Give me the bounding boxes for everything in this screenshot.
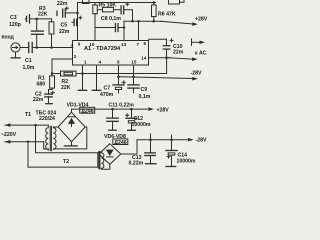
capacitor C10 22m: [163, 39, 183, 58]
ground under C2: [46, 103, 53, 105]
node: R6 top on rail: [153, 1, 156, 4]
svg-text:3: 3: [70, 44, 73, 49]
node: C14 on -rail: [170, 138, 173, 141]
capacitor C6: [121, 3, 132, 22]
svg-text:14: 14: [141, 56, 147, 61]
node: stub on -rail: [149, 138, 152, 141]
svg-text:22m: 22m: [33, 97, 44, 103]
stub on -28V rail: [150, 134, 152, 140]
node: pin7 on rail: [137, 20, 140, 23]
svg-text:680: 680: [37, 82, 46, 88]
ground under C11: [109, 129, 116, 131]
svg-text:22K: 22K: [38, 12, 48, 18]
node: line A to T2 branch: [34, 124, 37, 127]
transformer T2 core: [99, 152, 100, 169]
svg-text:к АС: к АС: [195, 51, 207, 57]
resistor R5 10K: [97, 3, 120, 12]
svg-text:4: 4: [99, 60, 102, 65]
diode bridge VD1-VD4 Д246: [58, 103, 95, 142]
ground under C12: [128, 129, 136, 131]
wire T1 secondary top to bridge: [53, 126, 58, 129]
svg-text:13: 13: [121, 42, 127, 47]
svg-text:C5: C5: [61, 22, 68, 28]
-28V arrow (PSU): [188, 138, 207, 144]
svg-text:22m: 22m: [173, 49, 184, 55]
capacitor C9 0,1m: [128, 85, 151, 100]
svg-text:C12: C12: [134, 116, 144, 122]
ground under C13: [146, 163, 156, 165]
transformer T1 core: [50, 126, 51, 150]
node: output/C10: [165, 56, 168, 59]
svg-text:R5 10K: R5 10K: [99, 3, 117, 9]
resistor R3 22K: [38, 6, 54, 48]
svg-text:+28V: +28V: [195, 17, 208, 23]
transformer T1 primary winding: [46, 125, 49, 150]
wire pin 13 up to +V rail: [123, 21, 125, 40]
svg-text:T1: T1: [25, 112, 31, 118]
~220V input line B: [5, 140, 44, 144]
wire bridge1 + output up to +rail: [71, 109, 73, 112]
svg-text:0,1m: 0,1m: [139, 94, 151, 100]
svg-text:C8 0,1m: C8 0,1m: [101, 16, 121, 22]
capacitor C3 120p: [9, 15, 52, 28]
capacitor C11 0,22m: [107, 102, 134, 130]
ground pin 1: [78, 89, 86, 91]
svg-text:1,0m: 1,0m: [23, 65, 35, 71]
svg-text:2: 2: [74, 54, 77, 59]
wire pin 7 up to +V rail: [138, 21, 140, 40]
node: R3 to input line: [50, 46, 53, 49]
wire pin 9 up to top rail: [77, 3, 79, 41]
~220V input line A: [1, 123, 48, 138]
svg-text:22m: 22m: [57, 1, 68, 7]
wire T1 secondary bottom to bridge right vertex: [53, 127, 86, 149]
capacitor C5 22m: [59, 16, 82, 35]
op-amp A1 TDA7294: [70, 41, 148, 66]
+28V arrow (amp): [161, 17, 208, 26]
-V bus of amp (pins 8,15): [119, 77, 193, 79]
svg-text:22m: 22m: [59, 29, 70, 35]
node: feedback/pin1 crossing: [81, 72, 84, 75]
svg-text:10000m: 10000m: [132, 122, 151, 128]
diode bridge VD6-VD8 Д246: [99, 134, 128, 164]
svg-text:220/24: 220/24: [39, 116, 55, 122]
svg-text:10: 10: [89, 42, 95, 47]
ground under C14: [166, 166, 176, 168]
wire feedback line R2 to output: [76, 73, 167, 75]
shunt capacitor at input (vertical): [32, 19, 44, 47]
svg-text:C7: C7: [104, 86, 111, 92]
wire input line to pin 3: [37, 47, 73, 49]
node: pin15 on -V bus: [132, 75, 135, 78]
ground under input connector: [11, 52, 20, 58]
wire pin 2 to feedback node: [52, 59, 73, 74]
resistor R1 680: [37, 74, 55, 95]
capacitor C12 10000m: [126, 109, 151, 130]
svg-text:T2: T2: [63, 159, 69, 165]
node: C8 to pin13 wire: [123, 26, 126, 29]
svg-text:C1: C1: [25, 58, 32, 64]
node: C12 on +rail: [130, 108, 133, 111]
node: C4 to pin9 wire: [76, 12, 79, 15]
wire line B corner to T1 primary bottom: [44, 142, 49, 149]
+V rail to +28V: [124, 20, 161, 22]
+28V arrow (PSU): [148, 107, 169, 113]
transformer T2 secondary winding: [101, 153, 104, 169]
svg-text:7: 7: [137, 42, 140, 47]
capacitor C8 0,1m: [95, 16, 124, 31]
svg-text:470m: 470m: [100, 92, 114, 98]
svg-text:10000m: 10000m: [177, 158, 196, 164]
+28V rail (PSU): [72, 108, 148, 110]
node: pin8 on -V bus: [117, 75, 120, 78]
node: shunt cap to input line: [35, 46, 38, 49]
wire pin 4 down to ground: [96, 65, 98, 90]
-28V arrow (amp): [191, 71, 202, 81]
wire pin 14 output: [149, 57, 172, 59]
ground under bridge1: [64, 145, 77, 147]
wire pin 8 down: [118, 65, 120, 85]
node: C6 on +V rail: [131, 20, 134, 23]
capacitor C4 22m: [57, 1, 78, 17]
svg-text:R6 47K: R6 47K: [158, 12, 176, 18]
svg-text:6: 6: [144, 41, 147, 46]
svg-text:Д246: Д246: [114, 140, 126, 146]
resistor R2 22K: [52, 71, 76, 91]
svg-text:вход: вход: [2, 35, 15, 41]
speaker output terminal "к АС": [192, 39, 207, 57]
cropped component box at top center: [83, 0, 90, 4]
svg-text:-28V: -28V: [196, 138, 207, 144]
wire output down to feedback line: [166, 58, 168, 74]
svg-text:8: 8: [117, 60, 120, 65]
node: pin2/R1/R2: [51, 72, 54, 75]
wire -rail corner down to bridge2 right vertex: [121, 140, 137, 154]
svg-text:1: 1: [84, 60, 87, 65]
capacitor C7 470m: [100, 81, 125, 98]
svg-text:+28V: +28V: [157, 108, 170, 114]
svg-text:~220V: ~220V: [1, 132, 17, 138]
capacitor C14 10000m: [166, 135, 196, 166]
svg-text:C9: C9: [141, 87, 148, 93]
svg-text:9: 9: [78, 42, 81, 47]
svg-text:0,22m: 0,22m: [129, 161, 144, 167]
node: C3 line to shunt cap junction: [35, 18, 38, 21]
wire bridge1 - output to ground: [71, 142, 73, 146]
node: C11 on +rail: [111, 108, 114, 111]
node: line B to T2 branch: [27, 141, 30, 144]
svg-text:-28V: -28V: [191, 71, 202, 77]
cropped component box at top right: [169, 0, 185, 4]
-28V rail (PSU): [137, 139, 189, 141]
svg-text:22K: 22K: [61, 85, 71, 91]
wire pin 15 down: [133, 65, 135, 85]
wire pin 6 to C10: [149, 38, 167, 40]
ground pin 4: [92, 89, 100, 91]
capacitor C1 1,0m: [20, 43, 37, 72]
node: R6 bottom on +V rail: [153, 20, 156, 23]
resistor R6 47K: [152, 3, 176, 22]
capacitor C13 0,22m: [129, 140, 156, 167]
svg-text:C11 0,22m: C11 0,22m: [109, 102, 135, 108]
resistor R4: [93, 3, 98, 41]
wire pin 1 down to ground: [82, 65, 84, 90]
wire T2 secondary top to bridge2 left vertex: [99, 151, 102, 154]
capacitor C2 22m: [33, 91, 54, 103]
svg-text:C3: C3: [10, 15, 17, 21]
top rail: [78, 2, 156, 4]
input connector "вход": [2, 35, 21, 53]
svg-text:15: 15: [131, 60, 137, 65]
svg-text:120p: 120p: [9, 22, 21, 28]
wire T2 secondary bottom to bridge2 bottom vertex: [101, 164, 109, 169]
transformer T2 primary (rectangle winding): [28, 125, 98, 167]
transformer T1 secondary winding: [53, 128, 56, 150]
